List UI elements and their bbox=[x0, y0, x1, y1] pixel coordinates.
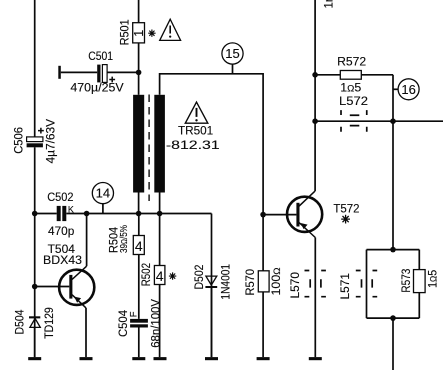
svg-text:14: 14 bbox=[96, 186, 110, 201]
wire transformer right bottom bbox=[159, 193, 161, 214]
wire to bottom edge bbox=[392, 318, 394, 370]
wire T572 emitter bbox=[314, 238, 316, 358]
wire right branch bbox=[418, 250, 420, 270]
node junction at (34.7,286.5) bbox=[32, 284, 38, 290]
svg-text:R502: R502 bbox=[141, 263, 153, 286]
svg-text:1N4001: 1N4001 bbox=[220, 264, 232, 300]
node junction at (138.6,72.4) bbox=[136, 70, 142, 76]
svg-text:68n/100V: 68n/100V bbox=[150, 299, 162, 348]
capacitor C501 bbox=[58, 51, 138, 95]
parallel box bottom wire bbox=[367, 317, 420, 319]
wire horizontal y=213.5 right of C502 bbox=[66, 213, 211, 215]
node 15 bbox=[222, 43, 243, 74]
svg-text:F: F bbox=[129, 311, 140, 317]
svg-text:R501: R501 bbox=[119, 19, 131, 45]
ground under T572 emitter bbox=[309, 357, 322, 360]
svg-text:100Ω: 100Ω bbox=[271, 267, 283, 295]
resistor R570 bbox=[245, 212, 283, 357]
wire D504 to ground bbox=[34, 327, 36, 357]
resistor R504 bbox=[109, 214, 145, 319]
resistor R501 bbox=[119, 0, 146, 95]
resistor R573 bbox=[401, 269, 440, 319]
svg-text:R572: R572 bbox=[337, 57, 366, 69]
wire T504 collector bbox=[86, 214, 88, 267]
ground under D502 bbox=[205, 357, 218, 360]
svg-text:16: 16 bbox=[401, 82, 415, 97]
warning triangle near R501 bbox=[160, 19, 181, 40]
svg-text:D502: D502 bbox=[194, 265, 206, 290]
wire R572 right corner down bbox=[392, 75, 394, 250]
wire transformer left bottom bbox=[138, 193, 140, 214]
wire D502 to ground bbox=[211, 288, 213, 357]
svg-text:1: 1 bbox=[132, 30, 146, 37]
ground under R502 bbox=[154, 357, 167, 360]
node junction at (393,249.6) bbox=[390, 247, 396, 253]
wire horizontal y=213.5 left bbox=[35, 213, 57, 215]
node junction at (138.6,213.5) bbox=[136, 211, 142, 217]
svg-text:4: 4 bbox=[156, 268, 164, 284]
wire left rail middle bbox=[34, 147, 36, 357]
warning triangle above TR501 bbox=[185, 102, 208, 123]
wire T504 emitter bbox=[85, 308, 87, 357]
svg-text:4: 4 bbox=[135, 238, 143, 254]
svg-text:D504: D504 bbox=[14, 309, 26, 335]
svg-text:39Ω/5%: 39Ω/5% bbox=[118, 225, 130, 253]
diode D504 bbox=[14, 307, 56, 339]
wire C504 to ground bbox=[138, 328, 140, 358]
ground under D504 bbox=[28, 357, 41, 360]
resistor R502 bbox=[141, 214, 165, 358]
ground under T504 emitter bbox=[80, 357, 93, 360]
svg-text:15: 15 bbox=[225, 46, 239, 61]
node junction at (315.1,121.2) bbox=[312, 118, 318, 124]
inductor L570 bbox=[290, 271, 326, 299]
resistor R572 bbox=[315, 57, 393, 95]
capacitor C506 bbox=[14, 119, 58, 164]
svg-text:470µ/25V: 470µ/25V bbox=[70, 83, 124, 95]
svg-text:R570: R570 bbox=[245, 269, 257, 296]
svg-text:C502: C502 bbox=[47, 192, 73, 204]
asterisk below T572 label bbox=[341, 215, 350, 224]
node junction at (315.1,74.8) bbox=[312, 72, 318, 78]
node junction at (34.7,213.5) bbox=[32, 211, 38, 217]
wire y=121.2 horizontal bbox=[315, 120, 443, 122]
node junction at (86.6,213.5) bbox=[84, 211, 90, 217]
svg-text:1Ω5: 1Ω5 bbox=[427, 270, 439, 288]
svg-text:470p: 470p bbox=[48, 226, 74, 238]
diode D502 bbox=[194, 264, 232, 300]
capacitor C502 bbox=[47, 192, 74, 238]
node junction at (159.6,213.5) bbox=[157, 211, 163, 217]
wire transformer right top bbox=[160, 74, 264, 271]
inductor L571 bbox=[340, 271, 377, 300]
svg-text:L570: L570 bbox=[290, 272, 302, 299]
svg-text:L572: L572 bbox=[339, 96, 368, 108]
asterisk next to R502 bbox=[169, 272, 176, 279]
wire left rail top bbox=[34, 0, 36, 137]
parallel box L571 R573 top wire bbox=[367, 249, 420, 251]
svg-text:TR501: TR501 bbox=[178, 126, 213, 138]
node 14 bbox=[92, 183, 113, 214]
node junction at (393,318.1) bbox=[390, 315, 396, 321]
svg-text:C501: C501 bbox=[88, 51, 113, 63]
ground under C504 bbox=[132, 357, 145, 360]
svg-text:T572: T572 bbox=[333, 204, 359, 216]
node 16 bbox=[393, 79, 419, 100]
svg-text:L571: L571 bbox=[340, 273, 352, 300]
wire T572 collector rail bbox=[314, 0, 316, 191]
wire D502 branch corner bbox=[211, 214, 213, 358]
capacitor C504 bbox=[118, 299, 162, 348]
node junction at (393,121.2) bbox=[390, 118, 396, 124]
transistor T504 bbox=[35, 244, 95, 308]
svg-text:BDX43: BDX43 bbox=[43, 255, 82, 267]
ground under R570 bbox=[257, 357, 270, 360]
wire left branch bbox=[366, 250, 368, 319]
inductor L572 bbox=[339, 96, 368, 132]
svg-text:1n: 1n bbox=[324, 0, 336, 9]
transistor T572 bbox=[263, 191, 359, 237]
svg-text:R573: R573 bbox=[401, 269, 413, 293]
svg-text:TD129: TD129 bbox=[44, 307, 56, 339]
svg-text:1Ω5: 1Ω5 bbox=[340, 83, 361, 95]
svg-text:4µ7/63V: 4µ7/63V bbox=[45, 119, 57, 164]
transformer TR501 bbox=[133, 95, 220, 202]
svg-text:C506: C506 bbox=[14, 127, 26, 154]
asterisk next to R501 bbox=[148, 30, 155, 37]
svg-text:-812.31: -812.31 bbox=[166, 138, 220, 152]
